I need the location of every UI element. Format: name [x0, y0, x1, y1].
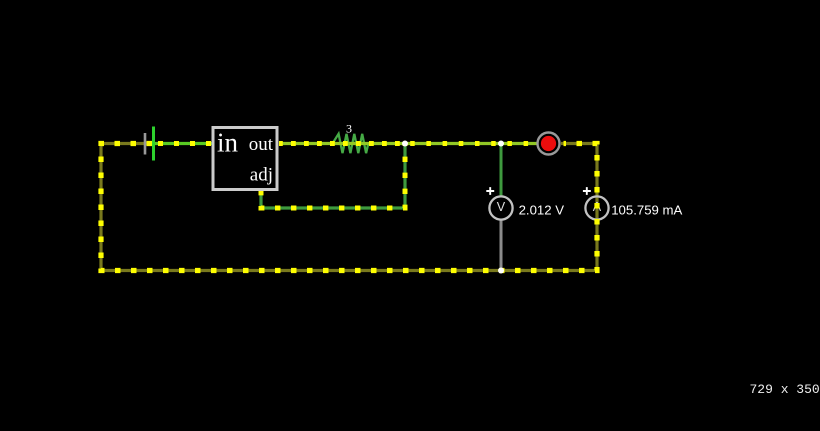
LED D1 ring	[538, 133, 560, 155]
ammeter plus sign	[583, 187, 591, 195]
voltmeter plus sign	[486, 187, 494, 195]
regulator U1 box	[213, 128, 277, 190]
svg-text:adj: adj	[250, 165, 273, 186]
svg-text:2.012 V: 2.012 V	[519, 203, 565, 218]
voltmeter U2	[489, 196, 512, 219]
wire voltmeter top stub	[500, 145, 503, 196]
wire voltmeter bottom stub	[500, 220, 503, 270]
wire ground loop current dashes	[101, 144, 597, 271]
battery V1 positive plate	[152, 127, 155, 161]
resistor R1 zigzag	[333, 134, 369, 153]
wire adj feedback loop	[261, 144, 405, 209]
node N1	[402, 141, 408, 147]
svg-text:729 x 350: 729 x 350	[750, 382, 820, 397]
wire ground loop (LED cathode to battery negative via ammeter and bottom rail)	[101, 144, 597, 271]
ammeter U3	[585, 196, 608, 219]
wire battery positive to regulator in	[155, 142, 212, 145]
node N3	[498, 268, 504, 274]
svg-text:105.759 mA: 105.759 mA	[611, 203, 682, 218]
wire regulator out to LED anode	[279, 142, 537, 145]
svg-text:V: V	[497, 200, 506, 214]
svg-text:out: out	[249, 134, 274, 155]
svg-text:3: 3	[346, 122, 352, 136]
LED D1 lit disc	[541, 136, 556, 151]
svg-text:in: in	[217, 128, 239, 158]
wire node to LED current dashes	[405, 141, 537, 146]
battery V1 negative plate	[144, 133, 147, 155]
node N2	[498, 141, 504, 147]
